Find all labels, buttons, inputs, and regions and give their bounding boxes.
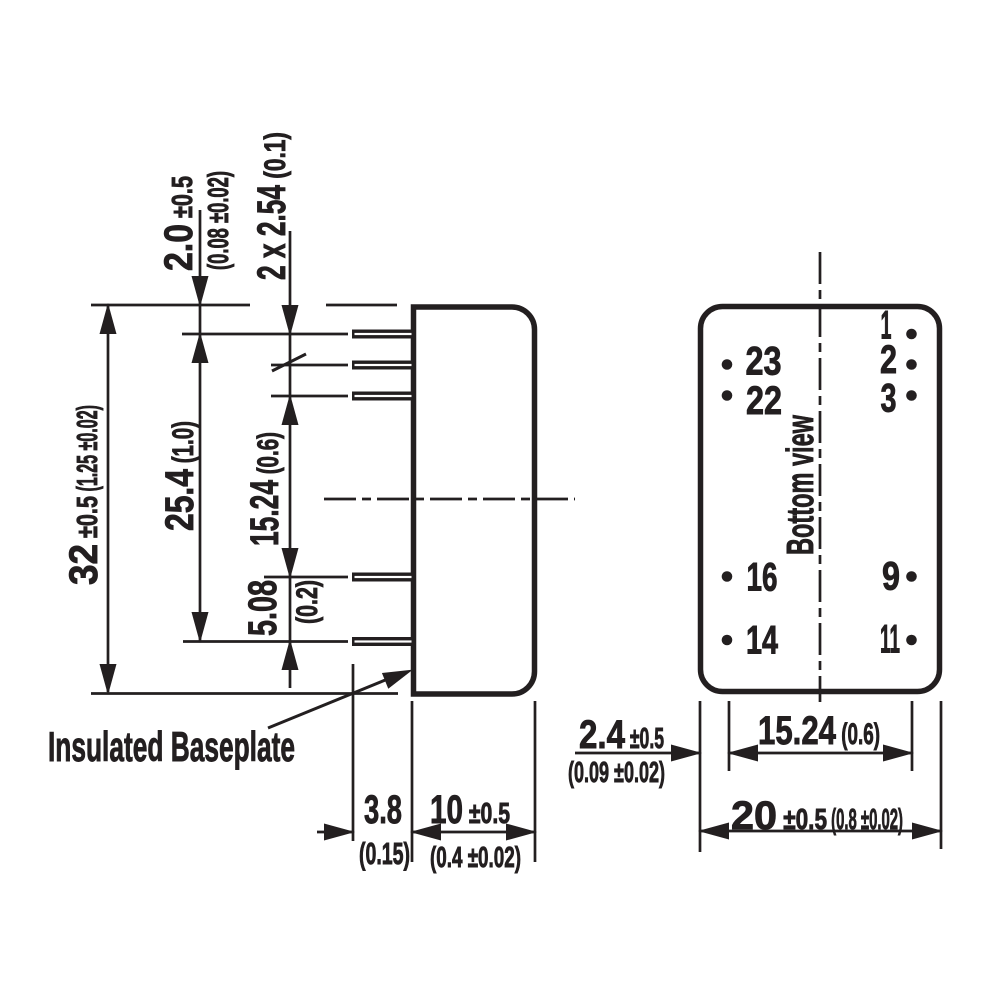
- svg-text:22: 22: [746, 379, 782, 423]
- svg-text:(0.09 ±0.02): (0.09 ±0.02): [568, 757, 665, 789]
- svg-text:(0.15): (0.15): [359, 836, 410, 871]
- svg-text:Insulated Baseplate: Insulated Baseplate: [48, 723, 295, 770]
- svg-text:23: 23: [746, 340, 782, 384]
- svg-text:16: 16: [747, 556, 778, 600]
- svg-text:3: 3: [881, 377, 897, 421]
- svg-text:2: 2: [880, 338, 897, 382]
- svg-text:(0.08 ±0.02): (0.08 ±0.02): [203, 171, 235, 270]
- svg-text:3.8: 3.8: [364, 788, 402, 832]
- svg-text:11: 11: [880, 618, 900, 662]
- svg-text:(0.2): (0.2): [291, 580, 324, 624]
- svg-text:Bottom view: Bottom view: [780, 415, 822, 555]
- svg-text:9: 9: [882, 555, 900, 599]
- svg-text:(0.4 ±0.02): (0.4 ±0.02): [430, 842, 521, 874]
- svg-text:14: 14: [746, 619, 779, 663]
- svg-text:5.08: 5.08: [241, 580, 285, 636]
